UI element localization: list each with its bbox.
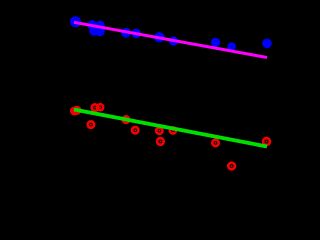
magenta fit line xyxy=(74,22,267,57)
green fit line xyxy=(74,110,267,147)
blue point B7 xyxy=(131,29,141,39)
blue point B11 xyxy=(227,42,235,50)
blue point B8 xyxy=(154,32,164,42)
blue point B3 xyxy=(95,21,105,31)
blue point B1 xyxy=(70,16,81,27)
blue point B12 xyxy=(262,39,272,49)
blue point B5 xyxy=(95,27,105,37)
red point center dots xyxy=(74,106,268,167)
blue point B5b xyxy=(92,23,101,32)
blue point B10 xyxy=(211,38,220,47)
blue point B2 xyxy=(87,20,97,30)
blue point B6 xyxy=(121,28,131,38)
blue point B4 xyxy=(89,26,99,36)
blue point B9 xyxy=(169,36,178,45)
red point R1 xyxy=(71,104,270,169)
